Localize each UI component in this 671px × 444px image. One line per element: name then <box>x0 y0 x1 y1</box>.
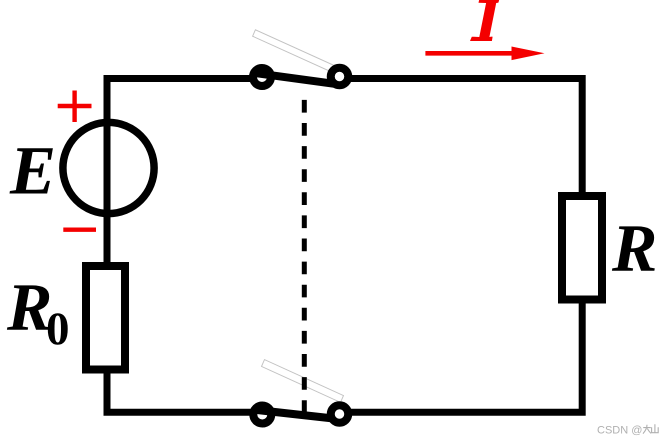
svg-text:CSDN @: CSDN @ <box>597 425 642 437</box>
svg-text:R: R <box>611 210 657 286</box>
svg-text:0: 0 <box>46 303 70 355</box>
svg-text:E: E <box>9 132 56 208</box>
